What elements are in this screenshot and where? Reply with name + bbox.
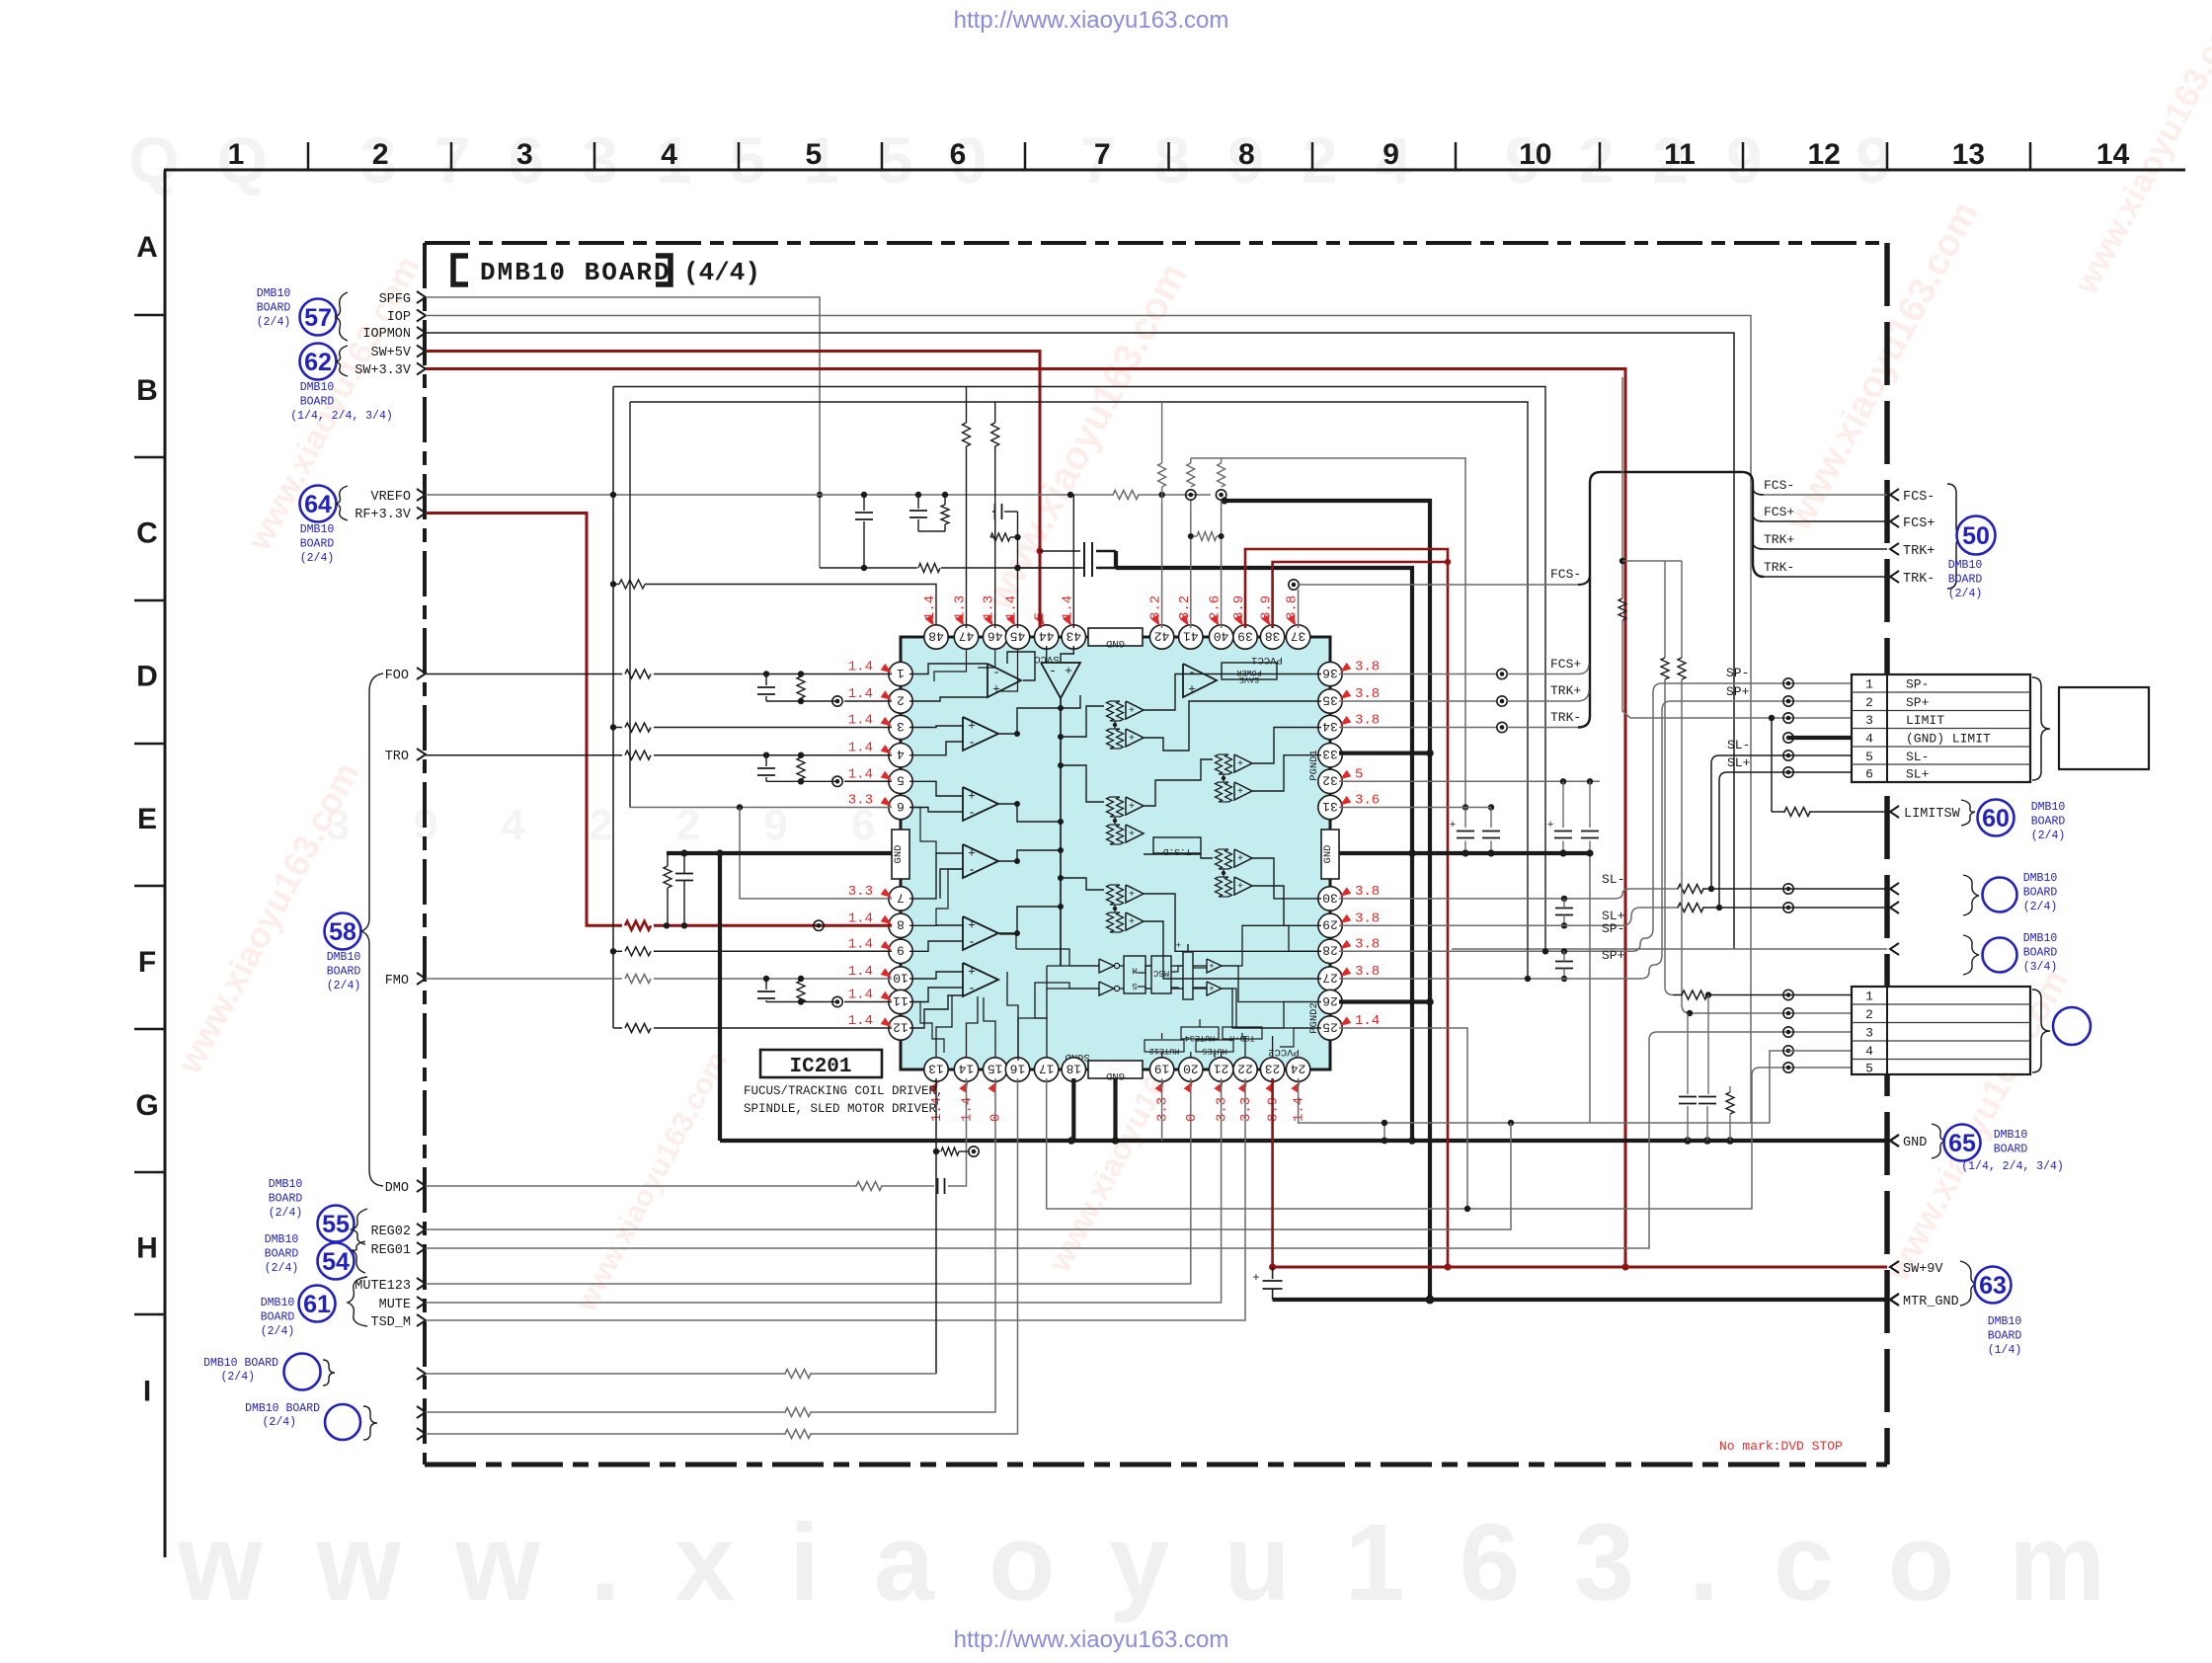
svg-text:(2/4): (2/4) <box>220 1371 255 1384</box>
svg-text:-: - <box>1049 664 1057 678</box>
wire GND top rail (thick) <box>1116 568 1412 1141</box>
T.S.D box <box>1153 837 1201 853</box>
svg-text:SP+: SP+ <box>1602 948 1625 963</box>
svg-text:1.4: 1.4 <box>848 766 873 782</box>
connector ref 50 <box>1957 516 1996 555</box>
pin 1 <box>889 662 912 685</box>
capacitor pins30-29 <box>1555 908 1573 910</box>
op-amp internal A3 <box>1183 664 1217 697</box>
svg-text:28: 28 <box>1322 943 1338 958</box>
pin 41 <box>1179 625 1203 649</box>
wire pin 31 row <box>1339 807 1491 809</box>
svg-text:IOP: IOP <box>387 310 411 325</box>
svg-text:(2/4): (2/4) <box>262 1416 296 1429</box>
MSC block <box>1151 956 1171 993</box>
wire SL- riser to table <box>1711 755 1719 889</box>
svg-text:BOARD: BOARD <box>2023 887 2058 900</box>
svg-text:MUTE34: MUTE34 <box>1185 1033 1216 1043</box>
svg-text:14: 14 <box>2096 138 2130 171</box>
svg-text:(1/4): (1/4) <box>1988 1344 2022 1357</box>
svg-text:9: 9 <box>897 943 905 958</box>
svg-text:3: 3 <box>1865 1026 1873 1041</box>
brace group 61 <box>348 1277 367 1326</box>
wire internal staircase left column <box>909 808 936 854</box>
svg-text:GND: GND <box>1903 1136 1927 1150</box>
svg-text:3.3: 3.3 <box>848 884 873 900</box>
svg-text:SL-: SL- <box>1602 872 1624 887</box>
board border top <box>425 241 1887 245</box>
capacitor/resistor pins1-2 <box>763 671 769 676</box>
svg-text:(2/4): (2/4) <box>1948 588 1983 600</box>
wire thick upper loop <box>1224 501 1430 1300</box>
pin 11 <box>889 990 912 1013</box>
node TRK- arrow <box>1890 571 1899 583</box>
svg-text:60: 60 <box>1982 805 2010 832</box>
MUTE34 box <box>1181 1027 1219 1039</box>
wire GND y864 thick extension <box>1412 851 1591 855</box>
svg-text:11: 11 <box>1664 138 1696 171</box>
block actuator box <box>2059 687 2149 769</box>
svg-text:BOARD: BOARD <box>265 1248 299 1261</box>
pin 7 <box>889 887 912 911</box>
svg-text:3: 3 <box>516 138 533 171</box>
wire pin 37 FCS- lower <box>1289 580 1299 590</box>
svg-text:SPFG: SPFG <box>379 292 411 307</box>
svg-text:6: 6 <box>897 799 905 814</box>
wire pins 47/46 top loops <box>966 446 968 628</box>
wire SW+3.3V (red) <box>426 369 1625 1268</box>
wire LIMITSW <box>1771 718 1773 812</box>
pin 6 <box>889 795 912 819</box>
svg-text:MSC: MSC <box>1152 968 1169 978</box>
svg-text:46: 46 <box>987 628 1003 643</box>
pin 3 <box>889 715 912 739</box>
svg-text:17: 17 <box>1039 1061 1055 1075</box>
wire SW+9V (red) <box>1273 1266 1887 1269</box>
svg-text:45: 45 <box>1010 628 1026 643</box>
svg-text:(1/4, 2/4, 3/4): (1/4, 2/4, 3/4) <box>1961 1160 2064 1173</box>
svg-text:DMB10 BOARD: DMB10 BOARD <box>480 258 671 287</box>
svg-text:1: 1 <box>228 138 245 171</box>
pin 29 <box>1318 913 1342 937</box>
svg-text:SP-: SP- <box>1906 677 1929 692</box>
svg-text:(1/4, 2/4, 3/4): (1/4, 2/4, 3/4) <box>290 410 393 423</box>
svg-text:(2/4): (2/4) <box>269 1207 303 1220</box>
pin 15 <box>984 1058 1007 1081</box>
svg-text:11: 11 <box>893 993 908 1008</box>
svg-text:3.3: 3.3 <box>1215 1097 1230 1122</box>
svg-text:http://www.xiaoyu163.com: http://www.xiaoyu163.com <box>954 7 1229 34</box>
board border left <box>423 243 427 1465</box>
svg-text:+: + <box>1209 962 1214 972</box>
svg-text:D: D <box>136 660 158 692</box>
svg-text:3.8: 3.8 <box>1355 660 1380 675</box>
svg-text:1.4: 1.4 <box>848 964 873 980</box>
svg-text:1.4: 1.4 <box>848 988 873 1003</box>
svg-text:4: 4 <box>1865 1044 1873 1059</box>
capacitors SVCC to GND (thick) <box>1040 550 1080 552</box>
svg-text:IC201: IC201 <box>789 1056 851 1078</box>
wire pin 48 row <box>610 581 616 587</box>
wire pin18 GND (thick) <box>1071 1078 1075 1141</box>
wire MTR_GND (thick) <box>1273 1298 1887 1302</box>
connector ref 63 <box>1975 1267 2012 1304</box>
svg-text:6: 6 <box>950 138 967 171</box>
connector table SP/SL <box>1852 674 2030 782</box>
connector ref 64 <box>300 486 337 522</box>
wire FOO to pin 1 <box>426 673 622 675</box>
svg-text:+: + <box>968 789 976 804</box>
wire PGND1 pin33 (thick) <box>1339 751 1430 754</box>
svg-text:FCS+: FCS+ <box>1550 657 1581 672</box>
svg-text:1.4: 1.4 <box>1355 1013 1380 1029</box>
brace table2 right <box>2032 990 2050 1072</box>
connector circle right of table2 <box>2053 1007 2091 1045</box>
MUTE12 box <box>1145 1040 1184 1052</box>
svg-text:48: 48 <box>928 628 944 643</box>
brace group 57 <box>336 292 348 341</box>
connector ref 55 <box>318 1206 355 1242</box>
driver block D5 <box>1107 885 1114 905</box>
svg-text:1: 1 <box>897 666 905 680</box>
IC201 reference box <box>760 1050 882 1077</box>
wire stub row1137 to GND row <box>1383 1123 1385 1141</box>
svg-text:13: 13 <box>1952 138 1985 171</box>
svg-text:SL-: SL- <box>1906 750 1929 764</box>
op-amp internal B3 <box>963 844 998 878</box>
wire internal staircase to SW block <box>1035 983 1099 1018</box>
svg-text:DMB10 BOARD: DMB10 BOARD <box>245 1402 320 1415</box>
svg-text:42: 42 <box>1154 628 1170 643</box>
svg-text:+: + <box>1237 759 1243 770</box>
svg-text:VREFO: VREFO <box>370 490 411 505</box>
pin 19 <box>1149 1058 1173 1081</box>
resistor/capacitor to RF rail <box>664 866 671 888</box>
op-amp internal B1 <box>963 717 998 751</box>
svg-text:IOPMON: IOPMON <box>362 327 411 342</box>
wire <box>417 1368 426 1380</box>
svg-text:58: 58 <box>329 918 356 946</box>
svg-text:(2/4): (2/4) <box>2031 830 2066 842</box>
op-amp internal A1 <box>987 664 1021 697</box>
svg-text:SAVE: SAVE <box>1239 674 1259 684</box>
wire GND right (thick) <box>1339 851 1412 855</box>
svg-text:43: 43 <box>1066 628 1081 643</box>
pin 44 <box>1035 625 1059 649</box>
svg-text:SP+: SP+ <box>1726 684 1750 699</box>
capacitors on VREFO bus <box>863 495 865 511</box>
ruler row ticks <box>134 314 165 317</box>
svg-text:5: 5 <box>1865 750 1873 764</box>
wire row 1224 <box>1047 1075 1752 1209</box>
wire internal bus <box>1060 698 1062 966</box>
TSD-M box <box>1223 1027 1262 1039</box>
pin 31 <box>1318 795 1342 819</box>
wire pin 3 row <box>610 724 616 730</box>
svg-text:-: - <box>968 935 976 950</box>
svg-text:57: 57 <box>304 304 332 332</box>
svg-text:13: 13 <box>928 1061 944 1075</box>
op-amp internal A2 (down) <box>1041 663 1080 698</box>
svg-text:32: 32 <box>1322 773 1338 788</box>
wire pin 24 riser <box>1299 1078 1302 1123</box>
op-amp IC201 body <box>901 637 1330 1069</box>
svg-text:TRK-: TRK- <box>1764 560 1794 575</box>
op-amp internal B2 <box>963 787 998 821</box>
wire pin 32 row <box>1339 780 1600 782</box>
svg-text:SL+: SL+ <box>1727 755 1751 770</box>
svg-text:1.4: 1.4 <box>848 713 873 729</box>
svg-text:REG01: REG01 <box>370 1243 411 1258</box>
wire GND row (thick) <box>720 1139 1887 1143</box>
svg-text:+: + <box>1450 820 1457 831</box>
wire pin 43 <box>1072 495 1074 628</box>
svg-text:4: 4 <box>897 747 905 761</box>
svg-text:BOARD: BOARD <box>300 396 335 409</box>
svg-text:(2/4): (2/4) <box>2023 901 2058 913</box>
wire internal drivers <box>1061 706 1104 737</box>
wire row 1137 <box>1302 1122 1770 1124</box>
svg-text:H: H <box>136 1232 158 1265</box>
svg-text:25: 25 <box>1322 1019 1338 1034</box>
svg-text:61: 61 <box>303 1291 331 1318</box>
brace group right circle A <box>1963 875 1979 915</box>
wire MUTE123 <box>426 1078 1191 1284</box>
wire internal bottom pins <box>936 995 952 1058</box>
svg-text:5: 5 <box>1355 766 1363 782</box>
wire internal to pin 25 <box>1280 1028 1321 1047</box>
GND box right <box>1321 830 1339 879</box>
svg-text:7: 7 <box>1094 138 1111 171</box>
wire TSD_M <box>426 1078 1245 1320</box>
svg-text:BOARD: BOARD <box>1988 1330 2022 1343</box>
pin 5 <box>889 769 912 793</box>
wire MUTE <box>426 1078 1222 1303</box>
svg-text:FCS-: FCS- <box>1550 567 1581 582</box>
pin 48 <box>924 625 948 649</box>
svg-text:-: - <box>968 863 976 878</box>
pin 2 <box>889 689 912 713</box>
pin 30 <box>1318 887 1342 911</box>
wire internal <box>909 972 963 979</box>
capacitor to GND <box>1490 808 1492 829</box>
wire internal <box>909 726 963 728</box>
svg-text:3.3: 3.3 <box>1155 1097 1171 1122</box>
svg-text:3: 3 <box>897 719 905 734</box>
svg-text:33: 33 <box>1322 747 1338 761</box>
pin 12 <box>889 1016 912 1040</box>
MUTE5 box <box>1196 1040 1233 1052</box>
svg-text:SP+: SP+ <box>1906 695 1930 710</box>
svg-text:55: 55 <box>322 1211 350 1238</box>
brace group 54 <box>352 1241 365 1273</box>
wire pin 30 to SL- <box>1339 898 1614 900</box>
capacitor electrolytic to GND <box>1464 808 1466 829</box>
svg-text:14: 14 <box>959 1061 975 1075</box>
svg-text:1: 1 <box>1865 990 1873 1004</box>
svg-text:16: 16 <box>1010 1061 1026 1075</box>
svg-text:37: 37 <box>1291 628 1306 643</box>
svg-text:(2/4): (2/4) <box>257 316 291 329</box>
wire internal drivers <box>1061 878 1104 890</box>
pin 26 <box>1318 990 1342 1013</box>
driver block D3 <box>1107 797 1114 817</box>
svg-text:1.4: 1.4 <box>960 1097 976 1122</box>
wire row 961 <box>1452 948 1887 950</box>
svg-text:BOARD: BOARD <box>1994 1144 2028 1156</box>
svg-text:12: 12 <box>893 1019 908 1034</box>
svg-text:+: + <box>1252 1271 1259 1285</box>
svg-text:TRK+: TRK+ <box>1764 532 1794 547</box>
svg-text:+: + <box>1129 706 1135 717</box>
wire bottom row1 <box>426 1373 786 1375</box>
bracket group 58 <box>361 673 383 1186</box>
svg-text:62: 62 <box>304 349 332 376</box>
pin 32 <box>1318 769 1342 793</box>
svg-text:3: 3 <box>1865 713 1873 728</box>
svg-text:+: + <box>992 682 1000 697</box>
wire PGND2 pin26 (thick) <box>1339 999 1430 1003</box>
driver bar <box>1183 952 1193 999</box>
wire 5pin row1 <box>1682 990 1707 999</box>
svg-text:MUTE123: MUTE123 <box>355 1279 411 1294</box>
svg-text:+: + <box>968 846 976 861</box>
wire TRO to pin 4 <box>426 754 622 756</box>
title DMB10 BOARD (4/4) <box>453 256 468 284</box>
wire IOP <box>426 316 1751 1124</box>
pin 23 <box>1260 1058 1284 1081</box>
pin 27 <box>1318 967 1342 990</box>
svg-text:GND: GND <box>1106 637 1125 649</box>
svg-text:A: A <box>136 231 158 264</box>
svg-text:35: 35 <box>1322 692 1338 707</box>
svg-text:+: + <box>1209 985 1214 994</box>
svg-text:22: 22 <box>1237 1061 1253 1075</box>
svg-text:SP-: SP- <box>1726 666 1749 680</box>
svg-text:DMB10: DMB10 <box>2023 932 2058 945</box>
wire 5pin row2 <box>1690 1012 1852 1014</box>
svg-text:1.4: 1.4 <box>848 1013 873 1029</box>
driver block D1 <box>1107 701 1114 721</box>
wire vertical x1610 down <box>1589 853 1591 1123</box>
svg-text:27: 27 <box>1322 970 1338 985</box>
svg-text:10: 10 <box>1519 138 1551 171</box>
svg-text:24: 24 <box>1291 1061 1306 1075</box>
svg-text:+: + <box>1237 854 1243 865</box>
svg-text:3.8: 3.8 <box>1355 964 1380 980</box>
svg-text:PVCC1: PVCC1 <box>1251 654 1283 666</box>
resistor on GND row <box>1729 1086 1731 1092</box>
wire internal bottom <box>1047 965 1099 967</box>
wire SL+ riser to table <box>1719 772 1727 908</box>
wire pin 7 row <box>740 808 892 899</box>
GND box bottom <box>1088 1061 1143 1078</box>
pin 28 <box>1318 939 1342 963</box>
svg-text:BOARD: BOARD <box>327 966 361 979</box>
svg-text:TRO: TRO <box>385 750 409 764</box>
ruler left line <box>164 170 167 1557</box>
resistor pin13 lower <box>933 1148 939 1154</box>
svg-text:4: 4 <box>661 138 677 171</box>
svg-text:BOARD: BOARD <box>257 302 291 315</box>
node FCS+ arrow <box>1890 515 1899 527</box>
svg-text:2: 2 <box>1865 695 1873 710</box>
wire REG02 <box>426 1123 1511 1229</box>
driver block D2 <box>1216 754 1223 774</box>
buffer 1 <box>1207 959 1222 973</box>
brace group 65 <box>1932 1124 1945 1158</box>
svg-text:FMO: FMO <box>385 974 409 989</box>
svg-text:3.8: 3.8 <box>1355 686 1380 702</box>
brace table right <box>2032 677 2050 780</box>
wire pin 11 <box>844 1001 892 1003</box>
svg-text:SW+9V: SW+9V <box>1903 1262 1943 1277</box>
svg-text:TRK-: TRK- <box>1550 710 1581 725</box>
svg-text:47: 47 <box>959 628 975 643</box>
svg-text:39: 39 <box>1237 628 1253 643</box>
svg-text:BOARD: BOARD <box>261 1311 295 1324</box>
svg-text:3.3: 3.3 <box>848 793 873 809</box>
svg-text:DMB10: DMB10 <box>269 1178 303 1191</box>
svg-text:5: 5 <box>805 138 822 171</box>
svg-text:3.6: 3.6 <box>1355 793 1380 809</box>
svg-text:64: 64 <box>304 491 332 518</box>
pin 20 <box>1179 1058 1203 1081</box>
wire branch to table rows 1/2 <box>1622 560 1682 562</box>
op-amp internal B4 <box>963 916 998 950</box>
svg-text:(2/4): (2/4) <box>265 1262 299 1275</box>
wire IOPMON <box>426 333 1734 949</box>
pin 34 <box>1318 715 1342 739</box>
svg-text:S: S <box>1132 981 1137 990</box>
svg-text:SPINDLE, SLED MOTOR DRIVER: SPINDLE, SLED MOTOR DRIVER <box>744 1102 937 1116</box>
brace group 60 <box>1961 800 1975 826</box>
svg-text:DMB10: DMB10 <box>1988 1315 2022 1328</box>
svg-text:TRK-: TRK- <box>1903 572 1935 587</box>
svg-text:DMB10: DMB10 <box>1948 559 1983 572</box>
svg-text:1.4: 1.4 <box>848 741 873 756</box>
wire pin 29 to SL+ <box>1339 924 1622 926</box>
wire GND trunk left (thick) <box>667 851 892 855</box>
pin 22 <box>1233 1058 1257 1081</box>
ruler top line <box>164 169 2185 172</box>
svg-text:20: 20 <box>1183 1061 1199 1075</box>
svg-text:-: - <box>1188 666 1196 680</box>
svg-text:-: - <box>968 736 976 751</box>
wire VREFO bus <box>426 494 1114 496</box>
svg-text:No mark:DVD STOP: No mark:DVD STOP <box>1719 1439 1843 1454</box>
wire TRK+ feed <box>1339 700 1497 702</box>
svg-text:http://www.xiaoyu163.com: http://www.xiaoyu163.com <box>954 1626 1229 1653</box>
svg-text:TSD_M: TSD_M <box>370 1315 411 1330</box>
svg-text:DMO: DMO <box>385 1181 409 1196</box>
pin 10 <box>889 967 912 990</box>
brace group right circle B <box>1963 935 1979 975</box>
node SL- arrow <box>1890 883 1899 895</box>
svg-text:44: 44 <box>1039 628 1055 643</box>
wire FCS bundle <box>1578 472 1764 728</box>
svg-text:DMB10 BOARD: DMB10 BOARD <box>203 1357 278 1370</box>
svg-text:BOARD: BOARD <box>2023 947 2058 960</box>
pin 14 <box>954 1058 978 1081</box>
wire SW+5V (red) <box>426 352 1040 629</box>
wire TRK- out <box>1764 576 1887 578</box>
svg-text:(2/4): (2/4) <box>300 552 335 565</box>
svg-text:1.4: 1.4 <box>848 686 873 702</box>
wire pin 27 to SP+ <box>1339 978 1640 980</box>
wire (GND) LIMIT row (thick) <box>1788 736 1852 740</box>
svg-text:DMB10: DMB10 <box>261 1297 295 1309</box>
